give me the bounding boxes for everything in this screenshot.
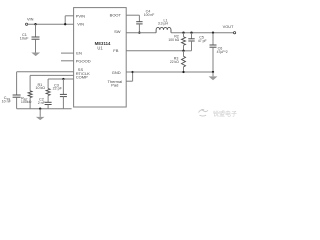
op-amp-style IC body U1 ME3114 (74, 8, 127, 107)
svg-text:3.3 µH: 3.3 µH (158, 22, 169, 26)
wire COMP line (48, 78, 74, 80)
wire Css bottom lead (16, 97, 18, 109)
ground under C6 (209, 76, 218, 80)
wire C1 bottom lead (35, 39, 37, 52)
wire GND stub (126, 71, 132, 73)
watermark logo (199, 110, 208, 117)
svg-text:47 pF: 47 pF (198, 39, 207, 43)
wire SW line (126, 32, 156, 34)
wire FB line (126, 50, 183, 52)
wire ground stub (39, 109, 41, 117)
junction PVIN branch (64, 23, 66, 25)
wire EN stub (61, 52, 74, 54)
svg-text:U1: U1 (97, 46, 103, 51)
resistor R3 22k (182, 56, 186, 66)
svg-text:锐盟电子: 锐盟电子 (213, 110, 237, 118)
wire power ground rail (133, 71, 213, 73)
svg-text:47µF*2: 47µF*2 (217, 50, 228, 54)
svg-text:100 kΩ: 100 kΩ (168, 38, 179, 42)
svg-text:VIN: VIN (77, 22, 84, 27)
resistor R2 100k (182, 37, 186, 45)
capacitor C6 47uF (210, 44, 217, 46)
capacitor C4 100nF (136, 21, 142, 23)
svg-text:22 pF: 22 pF (53, 87, 63, 91)
wire C6 bottom lead (212, 47, 214, 72)
wire R3 top lead (183, 51, 185, 57)
junction C3 on COMP (62, 78, 64, 80)
node VOUT terminal (234, 32, 236, 34)
junction C1 branch (34, 23, 36, 25)
wire R2 bottom lead (183, 45, 185, 51)
junction R2 (182, 32, 184, 34)
wire L1 to VOUT (171, 32, 234, 34)
junction ground rail (39, 108, 41, 110)
junction C6 on rail (212, 71, 214, 73)
svg-text:22 kΩ: 22 kΩ (170, 60, 179, 64)
wire C5 top lead (191, 33, 193, 39)
svg-text:SW: SW (114, 29, 121, 34)
capacitor C3 22pF (60, 93, 67, 95)
capacitor C5 47pF (188, 38, 194, 40)
wire BOOT stub (126, 14, 139, 16)
svg-text:10 nF: 10 nF (2, 100, 12, 104)
wire R1 to C2 (47, 96, 49, 103)
wire R3 bottom lead (183, 67, 185, 72)
wire C2 bottom lead (47, 105, 49, 109)
wire RT/CLK to Rrt (30, 74, 74, 76)
wire analog ground rail (17, 108, 72, 110)
svg-text:GND: GND (112, 70, 121, 75)
wire thermal pad stub (126, 80, 132, 82)
svg-text:PVIN: PVIN (76, 13, 85, 18)
node VIN input terminal (26, 23, 28, 25)
ground under C1 (31, 53, 40, 57)
wire R2 top lead (183, 33, 185, 37)
wire C5 bottom lead to FB (191, 41, 193, 51)
junction R3 on rail (182, 71, 184, 73)
capacitor Css 10nF (13, 94, 21, 96)
wire VIN terminal to VIN pin (28, 23, 74, 25)
junction C5 (190, 32, 192, 34)
inductor L1 3.3uH (156, 27, 171, 32)
wire SS to Css (17, 71, 74, 73)
svg-text:2 nF: 2 nF (38, 101, 46, 105)
junction C6 (212, 32, 214, 34)
svg-text:10 kΩ: 10 kΩ (36, 86, 46, 90)
svg-text:VOUT: VOUT (223, 24, 234, 29)
wire C1 top lead (35, 24, 37, 37)
resistor R1 10k (46, 89, 50, 96)
capacitor C2 2nF (45, 101, 52, 103)
wire C4 to SW (138, 24, 140, 33)
junction C4/SW (138, 32, 140, 34)
wire PGOOD stub (61, 60, 74, 62)
wire C3 bottom lead (62, 97, 64, 109)
svg-text:10uF: 10uF (20, 37, 29, 41)
capacitor C1 10uF (32, 36, 40, 38)
svg-text:PGOOD: PGOOD (76, 58, 91, 63)
svg-text:BOOT: BOOT (110, 13, 122, 18)
wire output ground stub (212, 72, 214, 76)
resistor Rrt 100k (28, 91, 32, 98)
junction GND/thermal (131, 71, 133, 73)
wire Rrt bottom lead (29, 98, 31, 109)
wire C6 top lead (212, 33, 214, 45)
svg-text:100 nF: 100 nF (144, 13, 155, 17)
svg-text:EN: EN (76, 51, 82, 56)
junction FB node (182, 50, 184, 52)
wire C3 top lead (62, 79, 64, 94)
svg-text:COMP: COMP (76, 75, 88, 80)
svg-text:FB: FB (113, 48, 118, 53)
wire branch up to PVIN (64, 16, 66, 24)
svg-text:Pad: Pad (111, 83, 118, 88)
svg-text:VIN: VIN (27, 17, 34, 22)
wire COMP to R1 (47, 79, 49, 89)
ground under comp network (36, 117, 45, 120)
